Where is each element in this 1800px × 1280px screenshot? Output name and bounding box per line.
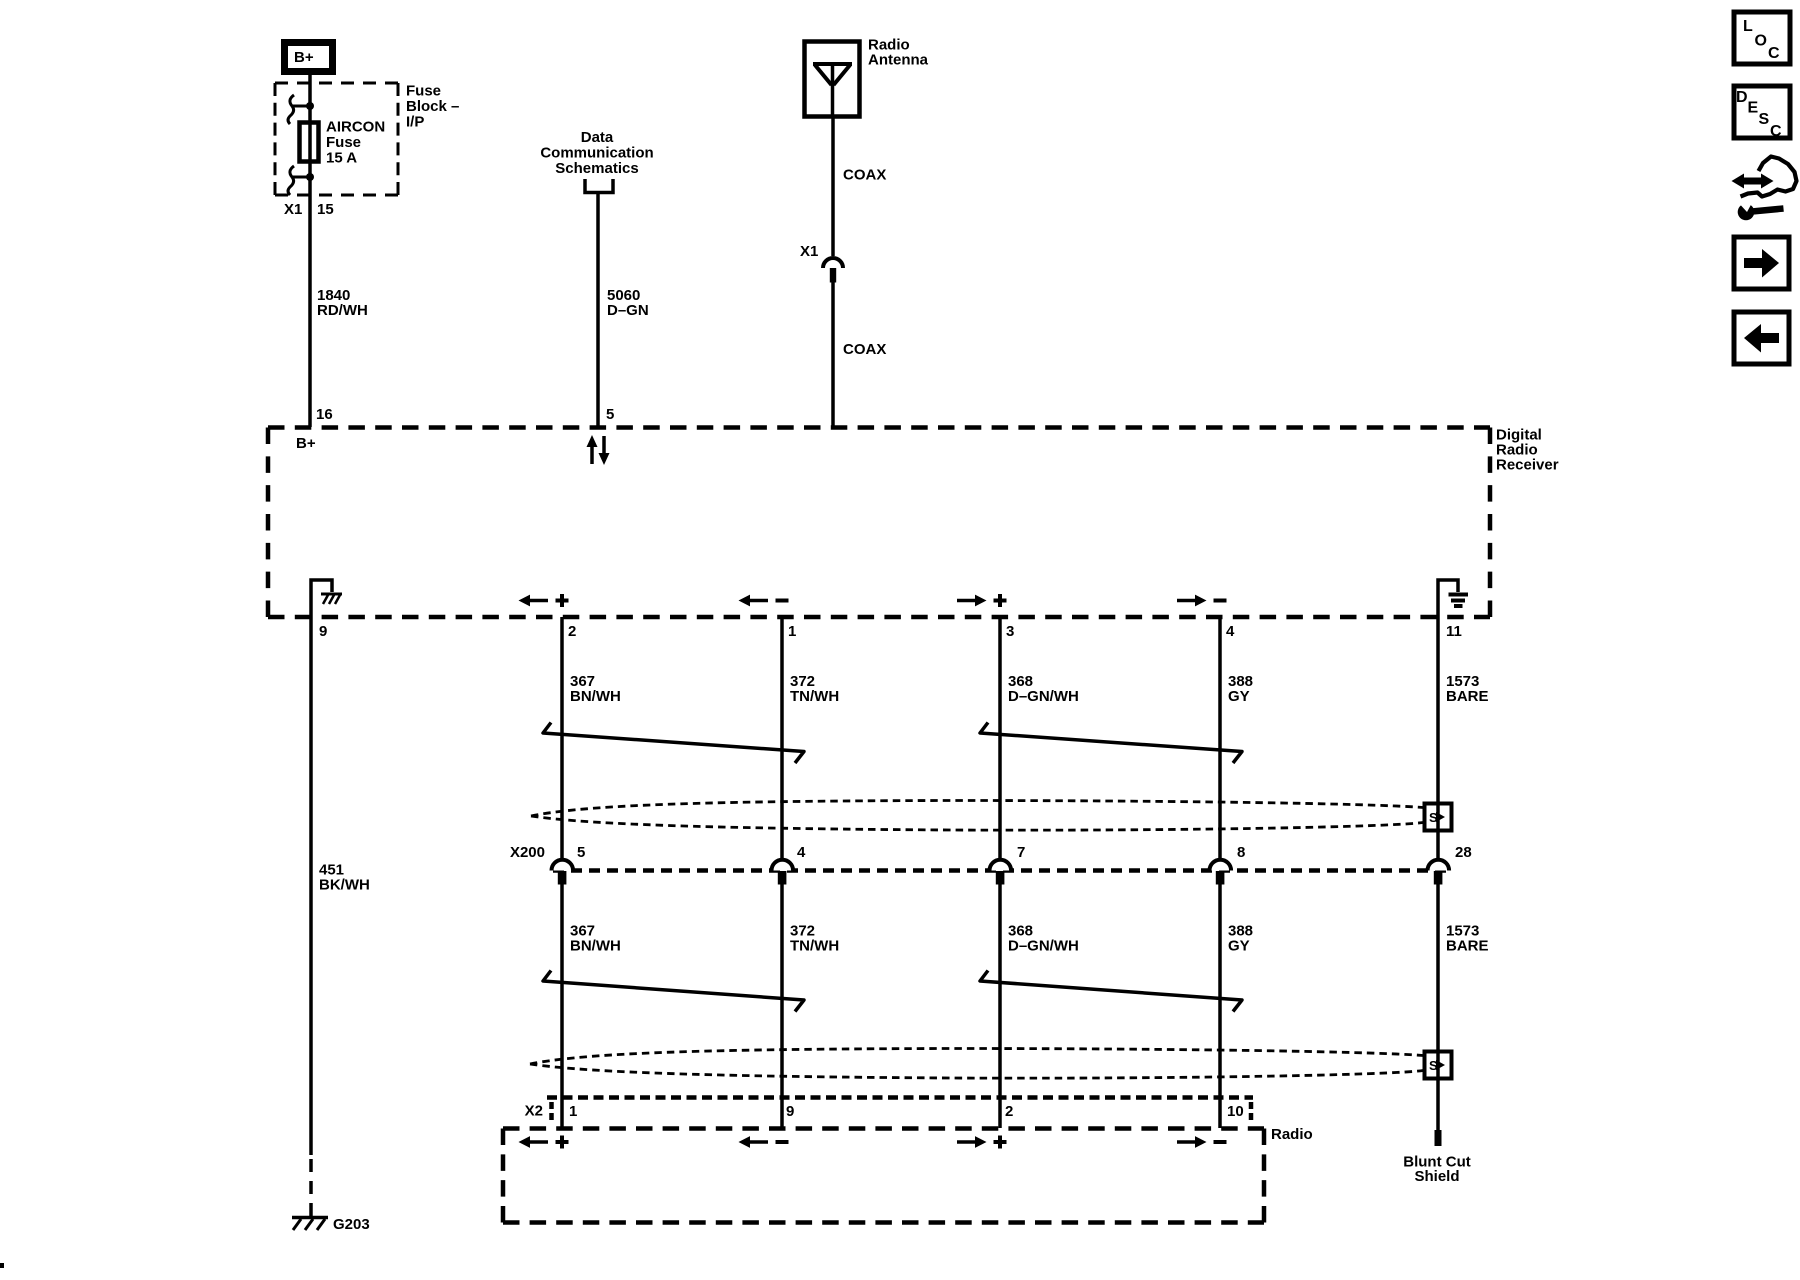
shield ellipse lower [530,1049,1423,1079]
svg-text:1: 1 [569,1103,577,1120]
wire 1573 BARE lower label [1446,923,1489,955]
svg-text:5: 5 [577,844,585,861]
wire 1840 RD/WH label [317,287,368,319]
radio antenna label [868,37,929,69]
svg-text:O: O [1755,33,1767,50]
X200 terminal arc pin 8 [1210,844,1246,885]
wire 5060 D-GN [596,194,600,427]
wire 1573 BARE lower segment [1436,884,1440,1130]
data communication schematics label [540,129,653,177]
svg-text:B+: B+ [296,435,316,452]
svg-text:GY: GY [1228,688,1250,705]
svg-text:Block –: Block – [406,98,459,115]
fuse block label [406,83,459,131]
fuse block upper terminal clip [288,95,308,124]
ground G203 chassis symbol [292,1218,328,1231]
twisted pair symbol wires 2-1 upper [543,723,804,764]
twisted pair symbol wires 3-4 lower [980,971,1242,1012]
coax wire lower segment [831,283,835,428]
svg-text:9: 9 [786,1103,794,1120]
wire 368 D-GN/WH upper label [1008,673,1079,705]
fuse block lower terminal clip [288,166,308,195]
svg-text:Shield: Shield [1414,1168,1459,1185]
radio - input arrow pin 10 [1177,1136,1227,1148]
svg-text:11: 11 [1446,623,1462,640]
wire 451 BK/WH label [319,862,370,894]
svg-text:10: 10 [1227,1103,1244,1120]
connector X2 left bracket [549,1102,554,1123]
radio dashed box [503,1129,1264,1223]
svg-text:4: 4 [1226,623,1235,640]
svg-text:16: 16 [316,406,333,423]
wire 388 GY lower label [1228,923,1253,955]
svg-text:D–GN: D–GN [607,302,649,319]
page edge artifact dot [0,1263,4,1268]
wire 388 GY lower segment [1218,884,1222,1128]
receiver pin number labels [319,623,1462,640]
svg-text:Antenna: Antenna [868,52,929,69]
shield splice symbol S upper [1425,804,1452,831]
connector X1 terminal arc [823,258,843,268]
twisted pair symbol wires 3-4 upper [980,723,1242,764]
wire 367 BN/WH lower label [570,923,621,955]
X2 pin number labels [569,1103,1244,1120]
svg-text:COAX: COAX [843,341,886,358]
speaker + output arrow pin 3 [957,594,1007,607]
coax wire upper segment [831,117,835,256]
wire 372 TN/WH upper segment pin 1 [780,617,784,860]
X200 terminal arc pin 5 [552,844,586,885]
radio + input arrow pin 2 [957,1136,1007,1149]
svg-text:E: E [1748,100,1759,117]
wire through fuse block down to X1 pin 15 [308,164,312,427]
wire 1573 BARE upper label [1446,673,1489,705]
shield ellipse upper [531,801,1423,831]
svg-text:I/P: I/P [406,114,424,131]
digital radio receiver dashed box [268,428,1490,618]
male terminal pin [830,268,836,283]
connector X1 pin 15 labels [284,201,334,218]
svg-text:AIRCON: AIRCON [326,119,385,136]
radio antenna component box [805,42,860,117]
internal chassis ground at pin 9 [311,580,342,617]
wire 368 D-GN/WH lower segment [998,884,1002,1128]
junction dot at fuse bottom [306,173,314,181]
svg-text:Fuse: Fuse [406,83,441,100]
svg-text:X1: X1 [800,243,818,260]
connector X2 right bracket [1249,1102,1254,1123]
svg-text:Fuse: Fuse [326,134,361,151]
svg-text:Receiver: Receiver [1496,457,1559,474]
svg-text:G203: G203 [333,1216,370,1233]
wire 451 dashed tail to ground [309,1159,313,1216]
twisted pair symbol wires 2-1 lower [543,971,804,1012]
svg-text:Schematics: Schematics [555,160,638,177]
internal earth ground at pin 11 [1438,580,1468,617]
svg-text:COAX: COAX [843,167,886,184]
wire 372 TN/WH lower label [790,923,839,955]
svg-text:BARE: BARE [1446,688,1489,705]
wire 451 BK/WH upper segment [309,617,313,1155]
svg-text:9: 9 [319,623,327,640]
svg-text:D: D [1736,89,1748,106]
wire 1573 BARE upper segment pin 11 [1436,617,1440,860]
sidebar next arrow button [1734,237,1789,289]
sidebar LOC button [1734,12,1790,64]
wire 372 TN/WH upper label [790,673,839,705]
svg-text:X1: X1 [284,201,302,218]
wire 368 D-GN/WH upper segment pin 3 [998,617,1002,860]
svg-text:BARE: BARE [1446,938,1489,955]
X200 terminal arc pin 28 [1428,844,1472,885]
svg-text:RD/WH: RD/WH [317,302,368,319]
speaker - output arrow pin 4 [1177,595,1227,607]
junction dot at fuse top [306,102,314,110]
svg-text:C: C [1768,45,1780,62]
blunt cut shield label [1403,1154,1470,1186]
svg-text:8: 8 [1237,844,1245,861]
sidebar DESC button [1734,86,1790,140]
svg-text:5: 5 [606,406,614,423]
wire 388 GY upper segment pin 4 [1218,617,1222,860]
wire 372 TN/WH lower segment [780,884,784,1128]
svg-text:L: L [1743,18,1753,35]
X200 terminal arc pin 7 [990,844,1026,885]
svg-text:Communication: Communication [540,145,653,162]
speaker - output arrow pin 1 [739,595,789,607]
svg-text:28: 28 [1455,844,1472,861]
svg-text:C: C [1770,123,1782,140]
svg-text:D–GN/WH: D–GN/WH [1008,938,1079,955]
svg-text:TN/WH: TN/WH [790,688,839,705]
svg-text:X200: X200 [510,844,545,861]
blunt cut shield termination [1435,1130,1442,1146]
svg-text:15 A: 15 A [326,150,357,167]
svg-text:S: S [1759,111,1770,128]
svg-text:3: 3 [1006,623,1014,640]
sidebar back arrow button [1734,312,1789,364]
svg-text:X2: X2 [525,1103,543,1120]
off-page connector bracket [585,179,613,193]
digital radio receiver label [1496,427,1559,474]
antenna symbol [813,64,852,117]
svg-text:TN/WH: TN/WH [790,938,839,955]
fuse block I/P dashed outline [275,83,398,195]
wire 5060 D-GN label [607,287,649,319]
svg-text:2: 2 [1005,1103,1013,1120]
svg-text:Radio: Radio [1271,1126,1313,1143]
wire 388 GY upper label [1228,673,1253,705]
svg-text:BN/WH: BN/WH [570,938,621,955]
svg-text:2: 2 [568,623,576,640]
svg-text:BN/WH: BN/WH [570,688,621,705]
svg-text:GY: GY [1228,938,1250,955]
bidirectional data arrows inside receiver [587,435,610,465]
wire 368 D-GN/WH lower label [1008,923,1079,955]
wire 367 BN/WH upper label [570,673,621,705]
speaker + output arrow pin 2 [519,594,569,607]
wire from B+ to fuse [308,75,312,120]
svg-text:B+: B+ [294,49,314,66]
fuse AIRCON 15 A [300,119,386,167]
radio - input arrow pin 9 [739,1136,789,1148]
X200 terminal arc pin 4 [771,844,806,885]
svg-text:Data: Data [581,129,614,146]
svg-text:4: 4 [797,844,806,861]
svg-text:7: 7 [1017,844,1025,861]
B+ power feed symbol [285,43,333,72]
wire 367 BN/WH lower segment [560,884,564,1128]
connector X2 dotted line [547,1095,1253,1100]
svg-text:D–GN/WH: D–GN/WH [1008,688,1079,705]
sidebar wire-trace icon [1732,157,1797,221]
shield splice symbol S lower [1425,1052,1452,1079]
inline connector X200 dashed line [553,868,1451,873]
svg-text:BK/WH: BK/WH [319,877,370,894]
radio + input arrow pin 1 [519,1136,569,1149]
wire 367 BN/WH upper segment pin 2 [560,617,564,860]
svg-text:15: 15 [317,201,334,218]
svg-text:1: 1 [788,623,796,640]
